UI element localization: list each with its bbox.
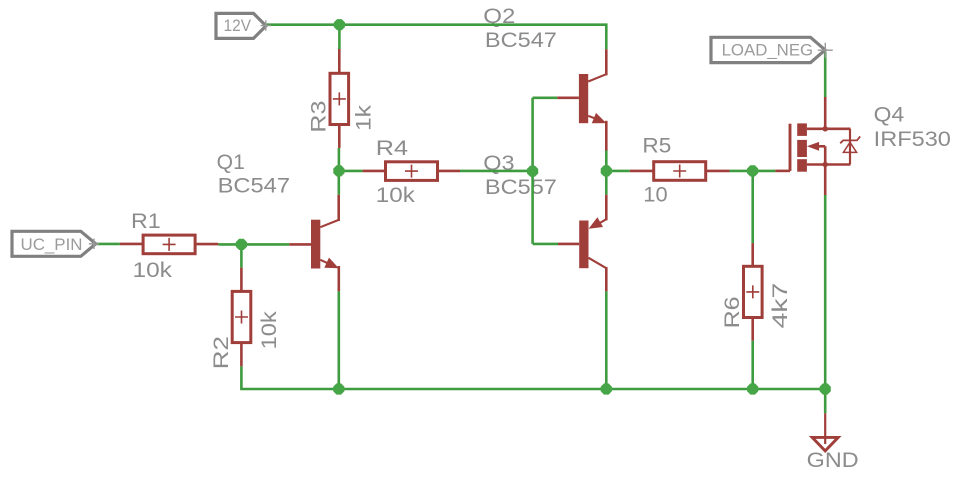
transistor Q1: [289, 195, 339, 292]
ground symbol: [812, 413, 838, 451]
resistor R5: [630, 162, 730, 181]
label R1 value 10k: [133, 259, 173, 282]
junction J6: [747, 165, 758, 176]
resistor R4: [363, 162, 460, 181]
svg-text:10k: 10k: [258, 311, 281, 350]
wire 12V top rail: [266, 23, 606, 26]
wire mid junction to R4: [339, 170, 363, 173]
label R2 value 10k: [258, 311, 281, 350]
wire gate junction to R6: [751, 171, 754, 243]
resistor R6: [744, 243, 763, 341]
wire R6 bottom to rail: [751, 341, 754, 389]
transistor Q4 MOSFET: [775, 97, 850, 195]
label R3 value 1k: [353, 104, 376, 131]
svg-text:R5: R5: [642, 135, 671, 158]
junction J10: [820, 383, 831, 394]
junction J9: [747, 383, 758, 394]
svg-text:BC547: BC547: [485, 29, 557, 52]
svg-text:LOAD_NEG: LOAD_NEG: [722, 40, 814, 59]
label GND: [807, 449, 859, 472]
wire Q2 emitter to junction: [605, 151, 608, 172]
resistor R1: [120, 235, 218, 254]
wire R2 bottom to rail: [241, 366, 338, 389]
junction J4: [527, 166, 538, 177]
wire bottom rail: [339, 388, 825, 391]
junction J8: [601, 383, 612, 394]
wire Q2 collector drop: [605, 23, 608, 49]
svg-text:10: 10: [643, 183, 667, 206]
label R2: [210, 336, 233, 369]
wire Q1 base from junction: [241, 243, 289, 246]
wire R3 top drop: [338, 25, 341, 49]
svg-text:R1: R1: [131, 210, 161, 233]
junction J5: [601, 165, 612, 176]
svg-text:10k: 10k: [376, 184, 416, 207]
transistor Q3: [558, 195, 606, 292]
svg-text:R6: R6: [721, 296, 744, 328]
label R4: [376, 137, 409, 160]
resistor R3: [330, 49, 349, 148]
wire Q3 collector drop: [605, 291, 608, 389]
junction J7: [333, 383, 344, 394]
junction J2: [333, 165, 344, 176]
label Q4: [874, 103, 951, 150]
svg-text:BC547: BC547: [218, 175, 290, 198]
flag tip cross LOAD_NEG: [818, 43, 833, 58]
svg-text:Q4: Q4: [874, 103, 905, 126]
svg-text:R2: R2: [210, 336, 233, 369]
net flag UC_PIN: [12, 231, 96, 256]
junction J1: [334, 19, 345, 30]
wire Q3 base horizontal: [533, 243, 558, 246]
svg-text:BC557: BC557: [485, 176, 557, 199]
wire Q1 collector: [337, 171, 340, 195]
wire Q2 base horizontal: [533, 97, 558, 100]
label Q3: [483, 152, 557, 199]
flag tip cross 12V: [261, 20, 271, 30]
svg-text:12V: 12V: [224, 16, 252, 35]
wire UC_PIN to R1: [97, 243, 120, 246]
svg-text:R3: R3: [308, 101, 331, 133]
wire base vertical Q2-Q3: [531, 98, 534, 244]
wire Q3 emitter from junction: [605, 171, 608, 195]
label Q1: [217, 151, 290, 198]
svg-text:4k7: 4k7: [769, 283, 792, 329]
net flag LOAD_NEG: [711, 37, 825, 62]
transistor Q2: [557, 49, 606, 150]
wire junction to R2 top: [240, 244, 243, 267]
label R5: [642, 135, 671, 158]
label R1: [131, 210, 161, 233]
wire R4 to base junction: [460, 170, 533, 173]
label R6 value 4k7: [769, 283, 792, 329]
wire R3 bottom to mid junction: [338, 148, 341, 171]
label R6: [721, 296, 744, 328]
svg-text:10k: 10k: [133, 259, 173, 282]
svg-text:UC_PIN: UC_PIN: [21, 235, 83, 254]
wire junction to R5: [606, 170, 630, 173]
wire R5 to gate junction: [730, 170, 753, 173]
wire rail to GND: [824, 389, 827, 413]
label Q2: [483, 5, 557, 52]
svg-text:IRF530: IRF530: [874, 128, 951, 151]
label R4 value 10k: [376, 184, 416, 207]
junction J3: [236, 239, 247, 250]
body diode of Q4: [840, 129, 860, 165]
wire gate junction to Q4 gate: [753, 170, 776, 173]
label R5 value 10: [643, 183, 667, 206]
svg-text:R4: R4: [376, 137, 409, 160]
supply flag 12V: [216, 13, 266, 38]
svg-text:1k: 1k: [353, 104, 376, 131]
svg-text:Q1: Q1: [217, 151, 245, 174]
label R3: [308, 101, 331, 133]
flag tip cross UC_PIN: [89, 239, 99, 249]
svg-text:GND: GND: [807, 449, 859, 472]
resistor R2: [232, 268, 251, 367]
wire LOAD_NEG to Q4 drain: [824, 52, 827, 98]
wire Q1 emitter drop: [337, 291, 340, 389]
wire Q4 source to rail: [824, 195, 827, 389]
wire R1 to junction: [218, 243, 241, 246]
